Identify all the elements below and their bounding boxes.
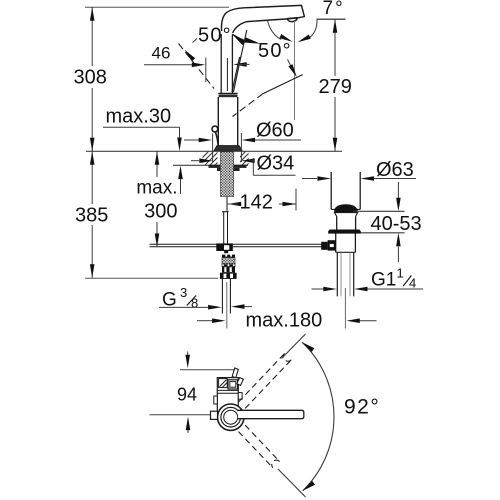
svg-text:max.180: max.180 [246, 310, 323, 332]
label 92deg [344, 396, 380, 419]
dim max300 line [155, 151, 160, 247]
plan spout dashed lower [239, 425, 280, 468]
92deg side line top [282, 334, 306, 359]
aerator dome [287, 18, 298, 22]
dim 308 line [90, 7, 95, 151]
faucet spout outline [222, 5, 305, 33]
hose down lines [222, 197, 229, 244]
50deg right leader arrow [288, 60, 297, 78]
dim O63 [302, 176, 416, 181]
label O34 [257, 153, 295, 175]
lever tilted-left dashed line [179, 44, 215, 89]
dim 46 ext left [205, 58, 207, 83]
dim 40-53 bottom line [361, 232, 405, 234]
dim 142 [228, 202, 296, 207]
plan top reference line [180, 369, 235, 371]
plan body left tab [214, 396, 218, 404]
drain side port [321, 240, 336, 250]
label 50deg right [258, 40, 292, 62]
plan lever flag [237, 378, 244, 386]
50deg left swing arc [231, 33, 260, 45]
pop-up rod knob [212, 126, 218, 145]
svg-text:max.: max. [136, 178, 177, 199]
lever open diagonal dashed [233, 94, 264, 117]
drain shoulder line [331, 208, 360, 210]
column left wall [220, 34, 222, 93]
drain dome cap [334, 204, 357, 212]
plan body lines [217, 390, 238, 393]
svg-text:279: 279 [319, 76, 352, 98]
countertop line [86, 150, 342, 152]
92deg arc [302, 342, 334, 491]
svg-text:308: 308 [74, 67, 107, 89]
drain upper cylinder [331, 172, 360, 209]
aerator axis extension line [294, 21, 296, 120]
label 46 [152, 44, 171, 63]
drain flange line [334, 212, 358, 214]
column right wall [231, 35, 233, 94]
dim 46 arrow right [233, 62, 249, 67]
svg-text:7°: 7° [323, 0, 345, 19]
label 385 [75, 205, 108, 227]
check valve collar [220, 273, 237, 279]
mounting nut [217, 168, 240, 171]
50deg left leader arrow [185, 39, 198, 62]
dim 279 line [333, 19, 338, 151]
supply tube center line [226, 282, 228, 329]
dim O60 ext lines [213, 133, 242, 162]
check valve castellation [222, 255, 235, 258]
label 142 [240, 192, 273, 214]
plan spout dashed upper [239, 353, 292, 408]
hose fitting [216, 243, 233, 253]
svg-text:Ø63: Ø63 [376, 159, 414, 181]
plan swivel circle mid [221, 407, 241, 427]
label G1 1/4 [371, 266, 416, 291]
check valve knurl section [222, 258, 235, 264]
drain flange taper [335, 213, 358, 217]
label O60 [256, 120, 294, 142]
92deg side line bottom [278, 469, 306, 497]
hose line [150, 244, 322, 247]
label 50deg left [198, 25, 232, 47]
plan bottom reference line [150, 414, 211, 416]
label max30 [106, 106, 172, 128]
drain body bottom line [336, 251, 356, 253]
plan swivel circle outer [218, 404, 244, 430]
svg-text:G1: G1 [371, 270, 396, 291]
body top flange [218, 93, 237, 97]
label 7deg [323, 0, 345, 19]
drain center line [344, 288, 346, 329]
label max300 [136, 178, 177, 223]
plan body hatch box [219, 379, 228, 388]
svg-text:Ø34: Ø34 [257, 153, 295, 175]
7deg leader arc with arrowhead [298, 20, 318, 43]
plan spout bar [238, 410, 304, 418]
body right wall [237, 97, 239, 146]
svg-text:50°: 50° [198, 25, 232, 47]
O34 bracket [253, 158, 295, 175]
countertop hatching right [231, 151, 261, 166]
supply tube [222, 279, 230, 314]
countertop bottom line [173, 164, 248, 166]
dim O60 [184, 138, 301, 143]
body left wall [217, 97, 219, 146]
check valve white band [222, 264, 235, 267]
svg-text:385: 385 [75, 205, 108, 227]
dim O34 arrows [191, 158, 255, 163]
label G3/8 [162, 285, 198, 311]
dim max180 left [197, 318, 226, 323]
dim 40-53 arrows [396, 182, 401, 262]
plan body outline [217, 378, 238, 415]
mounting washer [209, 165, 247, 168]
spray angle arc left [268, 21, 293, 42]
plan body right tab [238, 393, 242, 400]
lever stick [232, 56, 241, 93]
7deg reference line [317, 18, 346, 20]
top reference line [85, 6, 229, 8]
plan body box [228, 380, 238, 389]
check valve slotted section [222, 267, 235, 273]
dim max30 leader [103, 127, 182, 151]
svg-text:50°: 50° [258, 40, 292, 62]
drain neck [337, 217, 356, 230]
label max180 [246, 310, 323, 332]
svg-text:1: 1 [397, 266, 404, 281]
dim G1 1/4 [312, 287, 424, 292]
92deg arc arrowheads [302, 342, 315, 491]
dim 385 line [90, 151, 95, 277]
label 40-53 [371, 213, 422, 235]
threaded shank [220, 152, 233, 197]
dim 46 line left [144, 63, 205, 68]
dim 142 ext right [295, 189, 297, 211]
dim G3/8 left [159, 305, 222, 310]
lower reference line [85, 277, 218, 279]
dim 94 top arrow [185, 352, 190, 369]
svg-text:142: 142 [240, 192, 273, 214]
svg-text:max.30: max.30 [106, 106, 172, 128]
drain mounting nut [328, 230, 361, 234]
label O63 [376, 159, 414, 181]
drain tailpipe [337, 252, 353, 296]
countertop hatching left [194, 151, 229, 166]
dim max30 lower arrow [178, 166, 183, 194]
label 94 [177, 385, 197, 405]
svg-text:92°: 92° [344, 396, 380, 419]
svg-text:3: 3 [180, 285, 187, 300]
label 308 [74, 67, 107, 89]
dim G3/8 right [231, 304, 252, 309]
svg-text:300: 300 [144, 201, 177, 223]
lever open diagonal solid [263, 75, 303, 94]
svg-text:40-53: 40-53 [371, 213, 422, 235]
label 279 [319, 76, 352, 98]
column front edge line [226, 58, 228, 91]
base flange [214, 146, 242, 151]
lever raised thin line [241, 30, 247, 56]
dim max180 right [346, 318, 376, 323]
plan swivel circle inner [224, 410, 238, 424]
drain body [336, 233, 356, 252]
svg-text:46: 46 [152, 44, 171, 63]
dim 94 bottom arrow [186, 417, 191, 433]
plan left stub [211, 411, 218, 419]
plan reference flag [232, 368, 238, 378]
svg-text:94: 94 [177, 385, 197, 405]
dim 40-53 top line [353, 210, 405, 212]
svg-text:Ø60: Ø60 [256, 120, 294, 142]
